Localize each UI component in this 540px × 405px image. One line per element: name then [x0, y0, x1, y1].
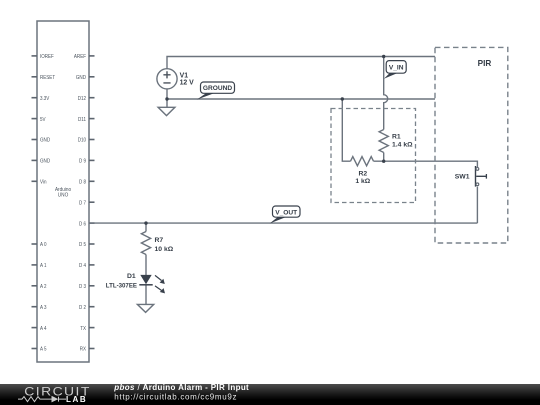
pin GND right	[76, 75, 95, 81]
pin D12	[78, 96, 95, 102]
svg-text:A 4: A 4	[40, 326, 47, 332]
resistor R1	[379, 130, 388, 153]
svg-text:http://circuitlab.com/cc9mu9z: http://circuitlab.com/cc9mu9z	[114, 393, 237, 402]
pin A3	[32, 305, 47, 311]
pin AREF	[74, 54, 95, 60]
svg-text:A 3: A 3	[40, 305, 47, 311]
svg-text:GND: GND	[40, 138, 50, 144]
wire V_OUT rail D6 to SW1	[89, 222, 477, 224]
R7 value label	[155, 237, 174, 253]
svg-text:D10: D10	[78, 138, 86, 144]
svg-text:D 6: D 6	[79, 221, 86, 227]
svg-text:R7: R7	[155, 237, 164, 244]
svg-text:GROUND: GROUND	[203, 85, 233, 92]
svg-text:D 5: D 5	[79, 242, 86, 248]
dashed box PIR	[435, 47, 508, 243]
Arduino UNO name label	[55, 187, 71, 198]
V_OUT net flag	[270, 206, 300, 224]
pin GND left upper	[32, 138, 51, 144]
wire ground rail V1 to PIR	[167, 89, 435, 99]
pin TX	[80, 326, 94, 332]
svg-text:R2: R2	[358, 170, 367, 177]
svg-text:IOREF: IOREF	[40, 54, 54, 60]
pin A4	[32, 326, 48, 332]
pin A2	[32, 284, 47, 290]
pin D10	[78, 138, 95, 144]
wire ground rail to R2 left	[342, 99, 350, 161]
wire R7 branch and leads	[145, 223, 147, 275]
wire R1/R2 junction to SW1 top	[374, 161, 478, 167]
svg-text:GND: GND	[76, 75, 86, 81]
wire SW1 bottom to V_OUT rail	[476, 187, 478, 224]
wire vertical V_IN net with hop over ground wire	[384, 57, 388, 130]
Arduino UNO module body	[37, 21, 89, 362]
R1 value label	[392, 133, 413, 148]
svg-text:10 kΩ: 10 kΩ	[155, 246, 174, 253]
svg-text:A 0: A 0	[40, 242, 47, 248]
svg-text:D1: D1	[127, 273, 136, 280]
pin A5	[32, 347, 47, 353]
D1 value label	[106, 273, 138, 289]
voltage source V1	[157, 69, 177, 89]
pin D3	[79, 284, 95, 290]
svg-text:PIR: PIR	[478, 59, 492, 68]
svg-text:V_OUT: V_OUT	[275, 209, 297, 216]
pin A1	[32, 263, 47, 269]
svg-text:SW1: SW1	[455, 174, 470, 181]
V_IN net flag	[384, 61, 406, 79]
pin D6	[79, 221, 95, 227]
ground symbol under V1	[158, 99, 175, 116]
pin 3.3V	[32, 96, 50, 102]
wire top V1 to PIR	[167, 57, 435, 69]
ground symbol under D1	[137, 304, 153, 312]
R2 value label	[355, 170, 370, 185]
pin D4	[79, 263, 95, 269]
svg-text:A 1: A 1	[40, 263, 47, 269]
pin RX	[80, 347, 95, 353]
svg-text:RX: RX	[80, 347, 86, 353]
svg-text:D 3: D 3	[79, 284, 86, 290]
svg-text:V1: V1	[180, 72, 189, 79]
svg-text:A 2: A 2	[40, 284, 47, 290]
svg-text:D11: D11	[78, 117, 86, 123]
svg-text:V_IN: V_IN	[389, 65, 404, 72]
svg-text:AREF: AREF	[74, 54, 86, 60]
svg-text:D 4: D 4	[79, 263, 87, 269]
svg-text:TX: TX	[80, 326, 86, 332]
pin 5V	[32, 117, 46, 123]
svg-text:LAB: LAB	[66, 395, 87, 404]
pin IOREF	[32, 54, 55, 60]
V1 value label	[180, 72, 195, 86]
svg-text:D12: D12	[78, 96, 86, 102]
dashed box around R1 R2 divider	[331, 109, 416, 203]
svg-text:A 5: A 5	[40, 347, 47, 353]
junction node ground rail to R2	[341, 97, 344, 100]
svg-text:GND: GND	[40, 159, 50, 165]
pin GND left lower	[32, 159, 51, 165]
svg-text:Vin: Vin	[40, 180, 47, 186]
junction node top wire / V_IN	[382, 55, 385, 58]
pin D8	[79, 180, 95, 186]
pin Vin	[32, 180, 47, 186]
svg-text:LTL-307EE: LTL-307EE	[106, 282, 138, 289]
svg-text:RESET: RESET	[40, 75, 55, 81]
pin D9	[79, 159, 95, 165]
svg-text:1.4 kΩ: 1.4 kΩ	[392, 141, 413, 148]
GROUND net flag	[197, 82, 235, 100]
pin A0	[32, 242, 47, 248]
pushbutton switch SW1	[476, 166, 487, 187]
svg-text:UNO: UNO	[58, 193, 69, 199]
svg-text:1 kΩ: 1 kΩ	[355, 178, 370, 185]
svg-text:12 V: 12 V	[180, 80, 195, 87]
svg-text:R1: R1	[392, 133, 401, 140]
resistor R2	[351, 157, 374, 166]
junction node R1 R2 SW1	[382, 160, 385, 163]
junction node V1 minus / ground	[165, 97, 168, 100]
wire D1 cathode to ground	[145, 285, 147, 305]
svg-text:pbos / Arduino Alarm - PIR Inp: pbos / Arduino Alarm - PIR Input	[113, 383, 249, 392]
wire R1 bottom lead	[383, 153, 385, 162]
svg-text:3.3V: 3.3V	[40, 96, 49, 102]
svg-text:5V: 5V	[40, 117, 46, 123]
pin D5	[79, 242, 95, 248]
svg-text:D 8: D 8	[79, 180, 86, 186]
svg-text:D 2: D 2	[79, 305, 86, 311]
pin D11	[78, 117, 95, 123]
svg-text:D 7: D 7	[79, 200, 86, 206]
resistor R7	[141, 232, 150, 255]
svg-text:D 9: D 9	[79, 159, 86, 165]
pin D7	[79, 200, 95, 206]
pin RESET	[32, 75, 56, 81]
LED D1	[139, 275, 165, 294]
CircuitLab logo resistor-diode squiggle	[18, 397, 66, 402]
junction node V_OUT rail to R7	[144, 221, 147, 224]
pin D2	[79, 305, 95, 311]
